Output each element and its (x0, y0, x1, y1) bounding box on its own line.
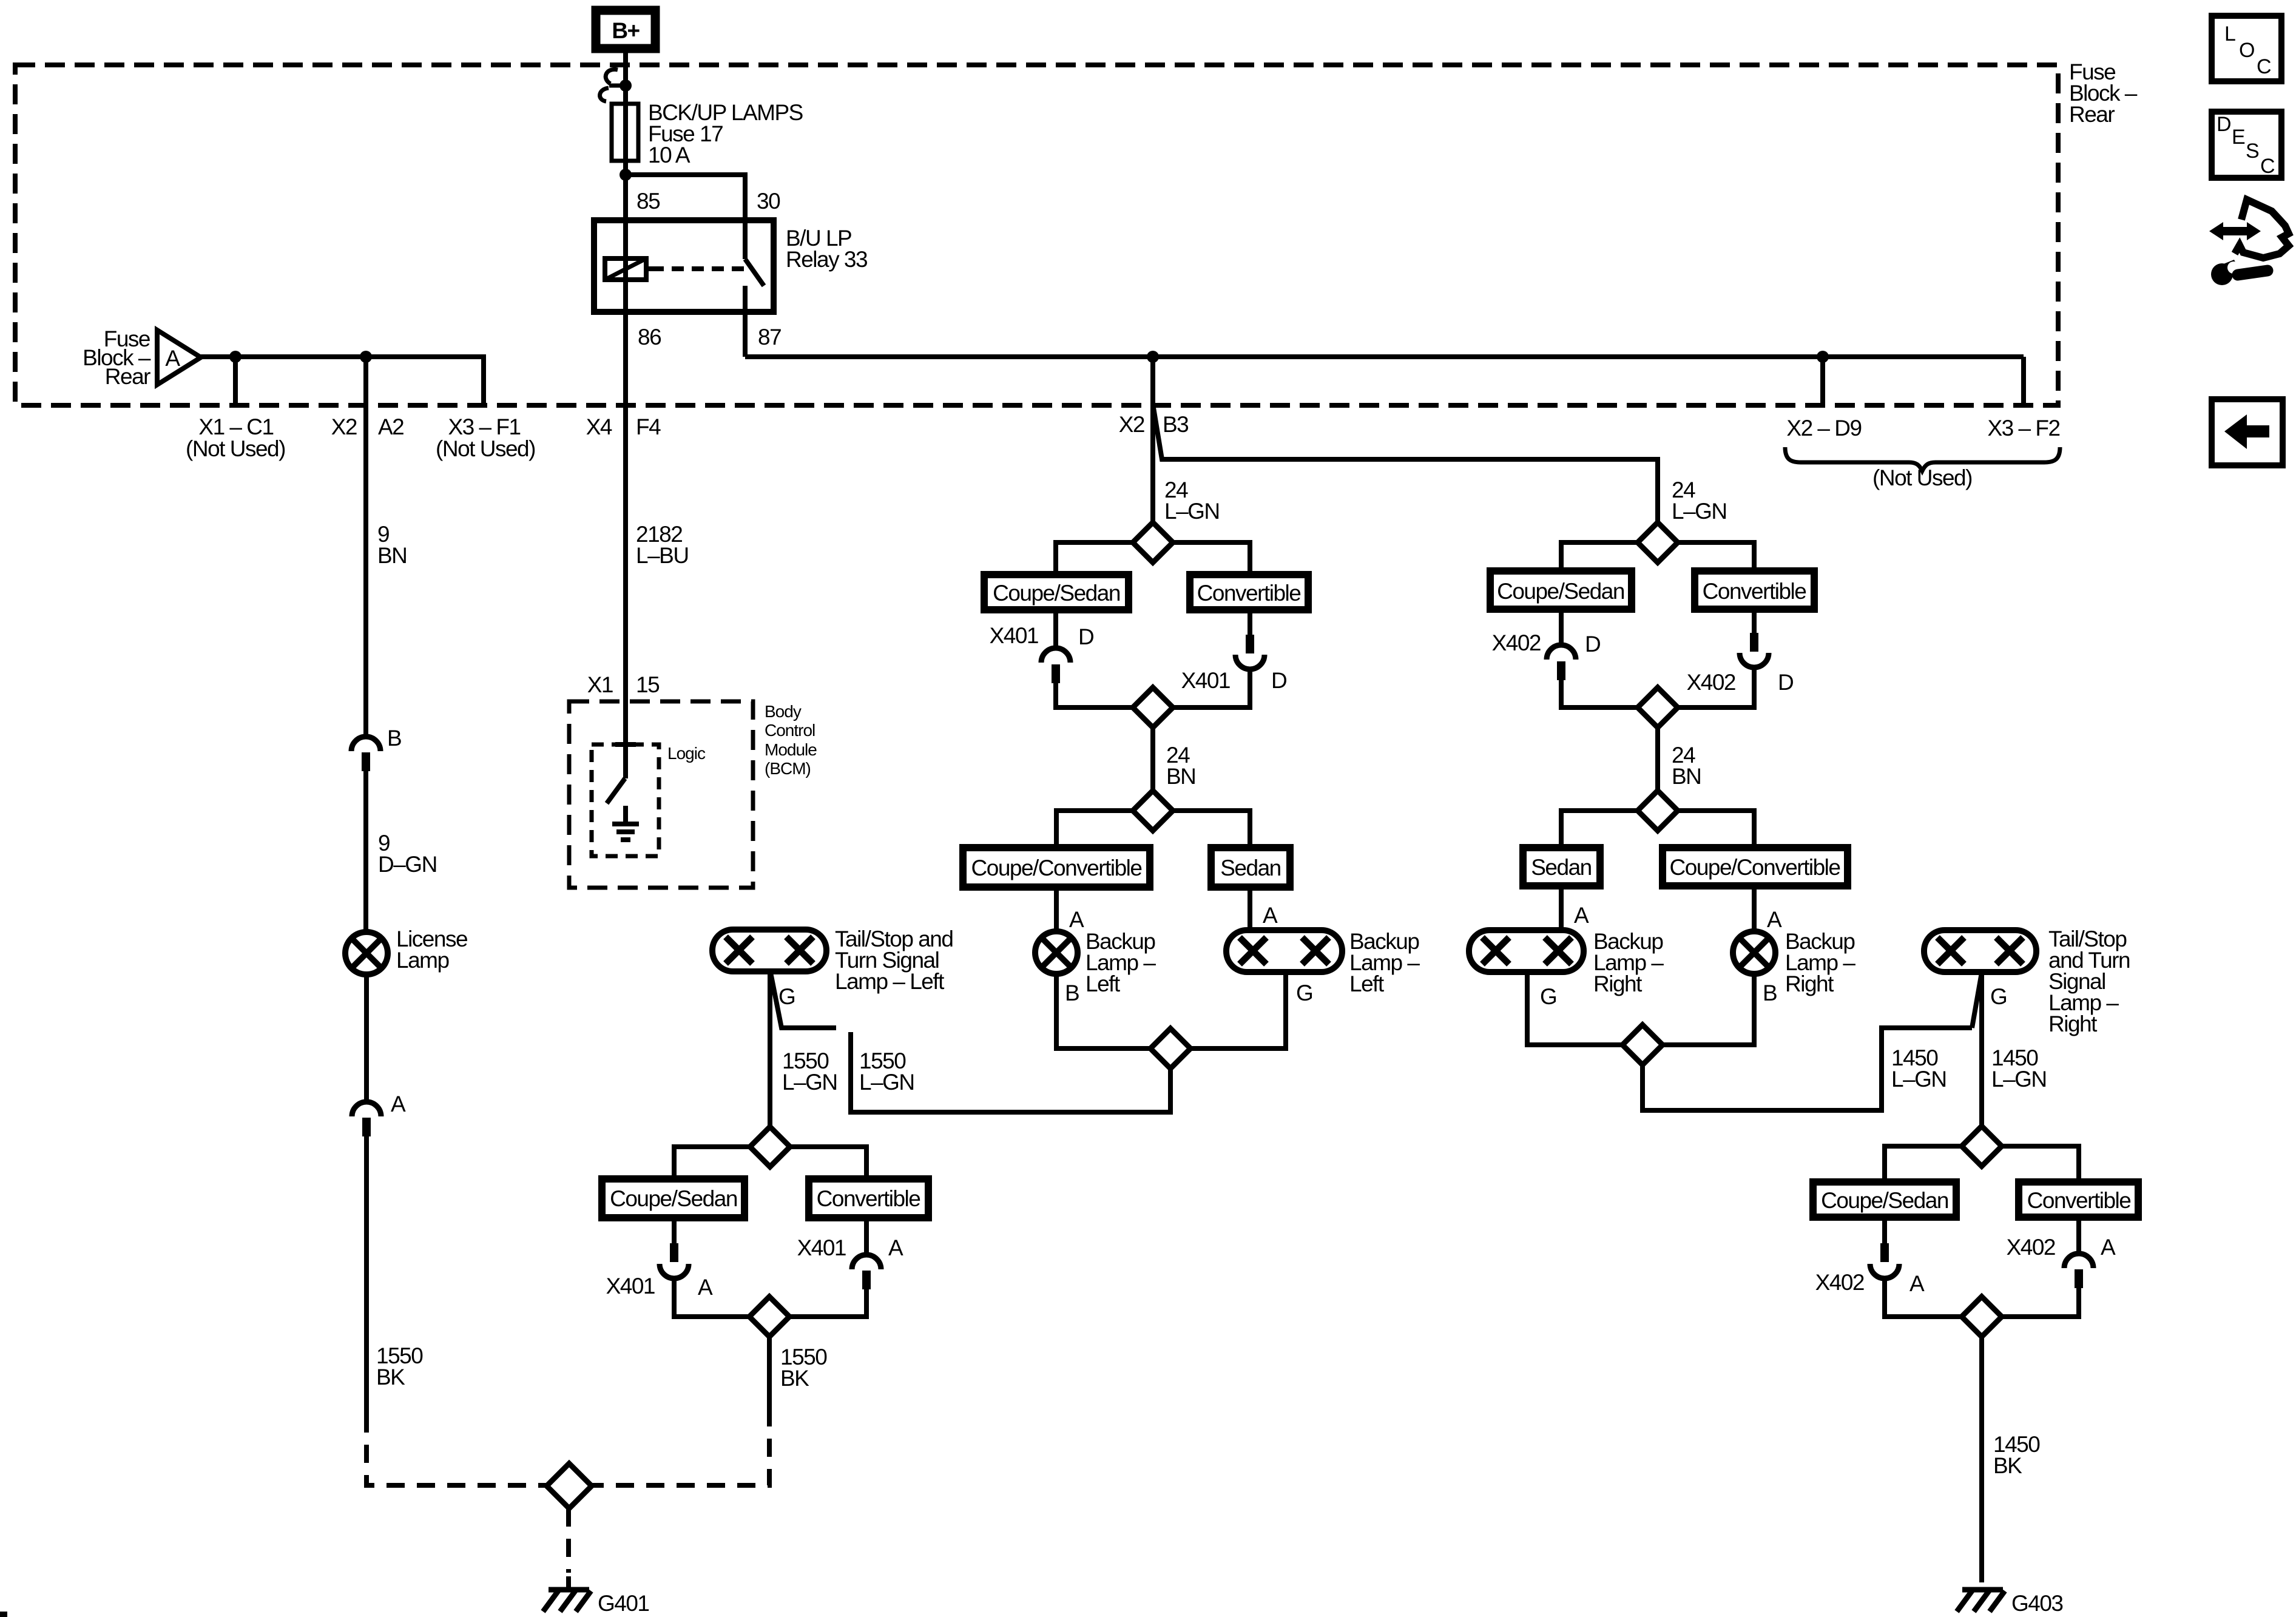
splice diamond 2 left backup (1133, 687, 1173, 727)
svg-text:(Not Used): (Not Used) (186, 436, 285, 461)
svg-text:X402: X402 (1815, 1270, 1864, 1295)
svg-text:Coupe/Sedan: Coupe/Sedan (1497, 579, 1624, 604)
wire splice4 to tail lamp left feed (1550 L-GN) (851, 1032, 1170, 1112)
junction node X2-D9 (1817, 351, 1829, 363)
option box Coupe/Sedan (backup right) (1490, 571, 1632, 609)
label 1450 L-GN right (1991, 1045, 2047, 1092)
svg-text:L–GN: L–GN (1164, 499, 1220, 524)
svg-text:BN: BN (1166, 764, 1195, 789)
BCM internal ground (612, 806, 639, 840)
splice diamond 3 right backup (1638, 791, 1678, 831)
wire diamond to coupe/sedan box L (1056, 542, 1133, 575)
wire diamond to coupe/sedan box R (1561, 542, 1638, 571)
wire tail lamp G pigtail stub (771, 973, 836, 1028)
svg-text:Convertible: Convertible (1197, 581, 1301, 606)
wire tail lamp right G pigtail (1972, 973, 1982, 1028)
wire branch to right backup circuit (1153, 408, 1658, 522)
wire connector to splice6 left (674, 1278, 749, 1317)
svg-text:(Not Used): (Not Used) (436, 436, 535, 461)
wire dashed to ground splice left (366, 1414, 547, 1485)
svg-text:G403: G403 (2011, 1591, 2063, 1616)
svg-text:G401: G401 (598, 1591, 649, 1616)
wire box to connector X402-D left (1559, 609, 1564, 645)
junction dot X2-A2 (360, 351, 372, 363)
wire splice2 to splice3 L (1150, 727, 1155, 791)
icon hand with arrow and wrench (2209, 200, 2289, 285)
svg-text:30: 30 (757, 189, 780, 214)
relay switch contact 30 (743, 220, 748, 259)
label Tail/Stop and Turn Signal Lamp Right (2048, 927, 2130, 1036)
stray corner mark (0, 1612, 7, 1617)
wire box to connector X402-A right (2076, 1217, 2081, 1254)
connector X401 D (convertible, backup left) (1181, 635, 1287, 693)
label 24 BN left (1166, 743, 1195, 789)
backup lamp left (dual filament) (1226, 930, 1342, 972)
connector X402 D (convertible, backup right) (1687, 633, 1794, 695)
wire dashed to ground splice right (592, 1408, 769, 1485)
svg-text:A: A (1069, 907, 1084, 932)
svg-text:X3 – F1: X3 – F1 (448, 414, 520, 439)
svg-text:L–GN: L–GN (1672, 499, 1727, 524)
tail stop turn signal lamp left (712, 930, 826, 971)
svg-text:Coupe/Sedan: Coupe/Sedan (993, 581, 1120, 606)
svg-text:X401: X401 (797, 1235, 846, 1260)
label 24 L-GN right (1672, 478, 1727, 524)
svg-text:X2: X2 (1119, 412, 1144, 437)
splice diamond 6 tail left (749, 1297, 789, 1337)
svg-text:Coupe/Sedan: Coupe/Sedan (610, 1186, 737, 1211)
BCM logic dashed box (592, 744, 659, 856)
label License Lamp (396, 927, 467, 973)
svg-text:X4: X4 (586, 414, 612, 439)
label X2 B3 (1119, 412, 1189, 437)
svg-text:86: 86 (638, 325, 661, 349)
label X2 A2 (331, 414, 404, 439)
wire splice2 to splice3 R (1655, 727, 1660, 791)
label Tail/Stop and Turn Signal Lamp Left (835, 927, 953, 994)
wire connector to splice diamond 2 R right (1678, 667, 1754, 707)
power feed B+ (596, 10, 655, 49)
svg-text:BN: BN (1672, 764, 1701, 789)
splice diamond 8 tail right (1962, 1297, 2002, 1337)
svg-text:X402: X402 (2007, 1235, 2055, 1260)
option box Convertible (backup right) (1695, 571, 1814, 609)
relay pin 87 stub (743, 286, 748, 357)
label 9 D-GN (378, 831, 437, 877)
ground G403 (1957, 1590, 2063, 1616)
ground G401 (543, 1590, 649, 1616)
svg-text:O: O (2239, 39, 2255, 62)
svg-text:Logic: Logic (667, 744, 706, 763)
svg-text:G: G (1296, 981, 1312, 1005)
label Backup Lamp Right (single) (1785, 929, 1855, 996)
label 1450 BK (1993, 1432, 2040, 1478)
wire diamond to convertible box L (1173, 542, 1250, 575)
wire dual lamp G to splice4 R (1527, 972, 1622, 1045)
wire connector to splice6 right (789, 1289, 866, 1317)
svg-text:15: 15 (636, 672, 660, 697)
label Body Control Module (BCM) (765, 702, 817, 778)
connector X401 D (coupe/sedan, backup left) (990, 623, 1094, 683)
BCM switch arm (607, 778, 625, 803)
option box Sedan (backup left) (1211, 848, 1290, 887)
wire tail lamp left down (1550 L-GN) (768, 971, 772, 1127)
label X1-C1 (186, 414, 285, 461)
svg-text:Control: Control (765, 721, 815, 740)
splice diamond 3 left backup (1133, 791, 1173, 831)
svg-text:Module: Module (765, 740, 817, 759)
wire diamond to convertible box R (1678, 542, 1754, 571)
svg-text:D: D (2217, 113, 2232, 136)
svg-text:X3 – F2: X3 – F2 (1987, 416, 2059, 441)
svg-text:(Not Used): (Not Used) (1872, 465, 1972, 490)
connector X401 A (coupe/sedan, tail left) (606, 1243, 713, 1300)
license lamp (345, 932, 388, 974)
wire license lamp feed (X2-A2 column upper) (363, 357, 368, 737)
icon DESC box (2212, 112, 2281, 178)
splice diamond S401 (547, 1463, 592, 1508)
svg-text:X402: X402 (1687, 670, 1735, 695)
wire dashed diamond to ground (566, 1508, 571, 1573)
wire B+ to fuse to relay coil (vertical main) (623, 53, 628, 778)
svg-text:X2 – D9: X2 – D9 (1786, 416, 1861, 441)
label 1550 BK left (376, 1343, 423, 1389)
svg-text:A: A (2101, 1235, 2116, 1260)
svg-text:Left: Left (1349, 971, 1385, 996)
svg-text:87: 87 (758, 325, 781, 349)
svg-text:G: G (1540, 984, 1556, 1009)
wire connector A down (1550 BK) (364, 1136, 369, 1414)
svg-text:L–GN: L–GN (859, 1070, 914, 1095)
wire stub X1-C1 (233, 357, 238, 405)
label X1 15 (BCM pins) (587, 672, 660, 697)
svg-text:Convertible: Convertible (2027, 1188, 2131, 1213)
wire box to connector X401-D right (1248, 610, 1252, 635)
svg-text:X401: X401 (990, 623, 1038, 648)
svg-text:L–GN: L–GN (782, 1070, 837, 1095)
wire splice7 to convertible box (2002, 1146, 2079, 1182)
svg-text:Coupe/Convertible: Coupe/Convertible (971, 856, 1142, 880)
label X3-F1 (436, 414, 535, 461)
fuse block rear source triangle label (83, 326, 151, 389)
connector X402 A (convertible, tail right) (2007, 1235, 2116, 1288)
svg-text:X401: X401 (606, 1274, 655, 1298)
svg-text:Right: Right (1785, 971, 1834, 996)
wire splice5 to coupe/sedan box (674, 1147, 750, 1179)
svg-text:E: E (2232, 126, 2246, 149)
wire fuse to relay pin 30 (626, 175, 745, 220)
svg-text:D: D (1585, 632, 1600, 657)
wire splice8 to ground G403 (1450 BK) (1979, 1337, 1984, 1582)
svg-text:A: A (1909, 1271, 1925, 1296)
connector X402 A (coupe/sedan, tail right) (1815, 1243, 1925, 1296)
wire backup lamp left B to splice4 (1056, 974, 1150, 1048)
svg-text:A: A (391, 1092, 406, 1116)
connector A (license lamp) (352, 1092, 406, 1136)
fusible link hook symbol (600, 69, 632, 101)
option box Coupe/Convertible (backup right) (1663, 848, 1848, 886)
wire license lamp to connector A (364, 974, 369, 1102)
source triangle A (157, 330, 201, 385)
wire connector to splice diamond 2 L right (1173, 669, 1250, 707)
svg-text:Rear: Rear (2069, 102, 2115, 127)
connector X402 D (coupe/sedan, backup right) (1492, 630, 1601, 680)
svg-text:X1: X1 (587, 672, 613, 697)
splice diamond 4 right backup (1622, 1025, 1663, 1065)
svg-text:D: D (1271, 668, 1286, 693)
option box Convertible (backup left) (1190, 575, 1308, 610)
BCM dashed box (569, 701, 753, 888)
icon LOC box (2212, 16, 2281, 81)
svg-text:G: G (1990, 984, 2007, 1009)
option box Convertible (tail right) (2019, 1182, 2138, 1217)
wire X2-B3 down (1150, 357, 1155, 522)
svg-text:BK: BK (376, 1365, 405, 1389)
wire stub X3-F2 (2021, 357, 2026, 405)
wire tail lamp right down (1450 L-GN) (1979, 972, 1984, 1126)
relay actuation dashed link (652, 266, 744, 271)
svg-text:Convertible: Convertible (817, 1186, 920, 1211)
svg-text:X2: X2 (331, 414, 357, 439)
wire diamond3 to coupe/convertible box R (1678, 811, 1754, 848)
splice diamond 2 right backup (1638, 687, 1678, 727)
svg-text:10 A: 10 A (648, 143, 690, 167)
tail stop turn signal lamp right (1924, 930, 2036, 972)
relay coil (605, 258, 652, 280)
label 9 BN (377, 522, 407, 568)
svg-text:B: B (1065, 981, 1079, 1005)
option box Coupe/Sedan (tail left) (602, 1179, 745, 1218)
label X4 F4 (586, 414, 661, 439)
wire bus from relay 87 to right side (745, 354, 2024, 359)
junction dot X1-C1 (229, 351, 241, 363)
svg-text:Right: Right (2048, 1011, 2098, 1036)
label 1550 L-GN left (782, 1048, 837, 1095)
wire coupe/convertible box to backup lamp right (1752, 886, 1757, 931)
svg-text:Relay 33: Relay 33 (786, 247, 867, 272)
wire connector to splice diamond 2 R (1561, 680, 1638, 707)
svg-text:L–GN: L–GN (1991, 1067, 2047, 1092)
wire from triangle A (201, 357, 484, 405)
wire sedan box to dual backup lamp left (1248, 887, 1252, 930)
wire box to connector X401-A right (864, 1218, 869, 1255)
svg-text:C: C (2260, 155, 2275, 178)
wire connector to splice8 right (2002, 1288, 2079, 1317)
wire backup lamp right B to splice4 (1663, 974, 1754, 1045)
brace not used (1785, 447, 2060, 471)
label Backup Lamp Left (dual) (1349, 929, 1420, 996)
wire connector to splice diamond 2 L (1056, 683, 1133, 707)
svg-text:A: A (1574, 903, 1589, 928)
junction dot below fuse (620, 169, 632, 181)
splice diamond 7 tail right (1962, 1126, 2002, 1166)
svg-text:85: 85 (636, 189, 660, 214)
backup lamp right (single) (1733, 931, 1775, 974)
wire splice5 to convertible box (790, 1147, 866, 1179)
svg-text:BK: BK (1993, 1453, 2022, 1478)
label Backup Lamp Left (single) (1086, 929, 1156, 996)
splice diamond 5 tail left (750, 1127, 790, 1167)
svg-text:Lamp – Left: Lamp – Left (835, 969, 945, 994)
svg-text:D: D (1778, 670, 1793, 695)
svg-text:X402: X402 (1492, 630, 1541, 655)
label 1550 L-GN right (859, 1048, 914, 1095)
connector X401 A (convertible, tail left) (797, 1235, 903, 1289)
svg-text:BN: BN (377, 543, 407, 568)
svg-text:D–GN: D–GN (378, 852, 437, 877)
wire sedan box to dual backup lamp right (1559, 886, 1564, 930)
wire diamond3 to sedan box R (1561, 811, 1638, 848)
fuse BCK/UP LAMPS Fuse 17 10A (612, 104, 638, 161)
svg-text:Left: Left (1086, 971, 1121, 996)
svg-text:B: B (1763, 981, 1777, 1005)
wire connector to splice8 left (1885, 1278, 1962, 1317)
svg-text:Coupe/Sedan: Coupe/Sedan (1821, 1188, 1948, 1213)
backup lamp right (dual filament) (1469, 930, 1584, 972)
icon back arrow box (2212, 399, 2283, 465)
svg-text:BK: BK (780, 1366, 809, 1391)
svg-text:A2: A2 (378, 414, 403, 439)
svg-text:Convertible: Convertible (1703, 579, 1806, 604)
wire box to connector X401-D left (1053, 610, 1058, 648)
splice diamond left backup top (1133, 522, 1173, 562)
option box Coupe/Convertible (backup left) (963, 848, 1150, 887)
relay B/U LP Relay 33 (594, 189, 867, 349)
option box Convertible (tail left) (809, 1179, 928, 1218)
svg-text:A: A (698, 1275, 713, 1300)
wire to backup lamp left A (1054, 887, 1059, 931)
svg-text:A: A (888, 1235, 903, 1260)
label 2182 L-BU (636, 522, 689, 568)
wire box to connector X401-A left (672, 1218, 677, 1243)
svg-text:A: A (165, 346, 180, 371)
svg-text:A: A (1263, 903, 1278, 928)
label 24 L-GN left (1164, 478, 1220, 524)
svg-text:Lamp: Lamp (396, 948, 449, 973)
svg-text:Coupe/Convertible: Coupe/Convertible (1670, 855, 1840, 880)
svg-text:Sedan: Sedan (1220, 856, 1281, 880)
svg-text:A: A (1767, 907, 1782, 932)
label Fuse Block Rear (top right) (2069, 59, 2138, 127)
wire dual lamp G to splice4 L (1190, 972, 1286, 1048)
svg-text:S: S (2246, 140, 2260, 163)
wire diamond3 to sedan box L (1173, 811, 1250, 848)
relay switch arm (745, 259, 764, 286)
label 1550 BK right (780, 1345, 827, 1391)
svg-text:Body: Body (765, 702, 802, 721)
svg-text:C: C (2257, 55, 2272, 78)
wire splice6 down (1550 BK) (767, 1337, 772, 1408)
wire connector B to license lamp (363, 771, 368, 932)
option box Sedan (backup right) (1523, 848, 1600, 886)
svg-text:Rear: Rear (105, 364, 150, 389)
svg-text:Sedan: Sedan (1531, 855, 1592, 880)
option box Coupe/Sedan (backup left) (984, 575, 1129, 610)
label Backup Lamp Right (dual) (1593, 929, 1664, 996)
svg-text:F4: F4 (636, 414, 661, 439)
svg-text:B3: B3 (1163, 412, 1188, 437)
svg-text:B+: B+ (612, 18, 640, 43)
wire box to connector X402-D right (1752, 609, 1757, 633)
svg-text:G: G (778, 984, 795, 1009)
label 24 BN right (1672, 743, 1701, 789)
option box Coupe/Sedan (tail right) (1813, 1182, 1956, 1217)
wire splice4 to tail lamp right feed (1450 L-GN) (1643, 1028, 1972, 1110)
BCM input tick (615, 742, 636, 747)
wire stub X2-D9 (1820, 357, 1825, 405)
label 1450 L-GN left (1891, 1045, 1947, 1092)
fuse block rear dashed border (15, 65, 2058, 405)
backup lamp left (single) (1035, 931, 1078, 974)
svg-text:L–BU: L–BU (636, 543, 689, 568)
splice diamond right backup top (1638, 522, 1678, 562)
svg-text:B: B (387, 726, 401, 751)
svg-text:D: D (1078, 624, 1093, 649)
svg-text:L–GN: L–GN (1891, 1067, 1947, 1092)
label fuse 17 (648, 100, 803, 167)
svg-text:X1 – C1: X1 – C1 (198, 414, 273, 439)
junction node X2-B3 (1147, 351, 1159, 363)
wire box to connector X402-A left (1882, 1217, 1887, 1243)
wire diamond3 to coupe/convertible box L (1056, 811, 1133, 848)
svg-text:L: L (2224, 22, 2236, 46)
connector B (license lamp) (351, 726, 401, 771)
svg-text:Right: Right (1593, 971, 1643, 996)
svg-text:X401: X401 (1181, 668, 1230, 693)
svg-text:(BCM): (BCM) (765, 759, 811, 778)
splice diamond 4 left backup (1150, 1028, 1190, 1068)
wire splice7 to coupe/sedan box (1885, 1146, 1962, 1182)
